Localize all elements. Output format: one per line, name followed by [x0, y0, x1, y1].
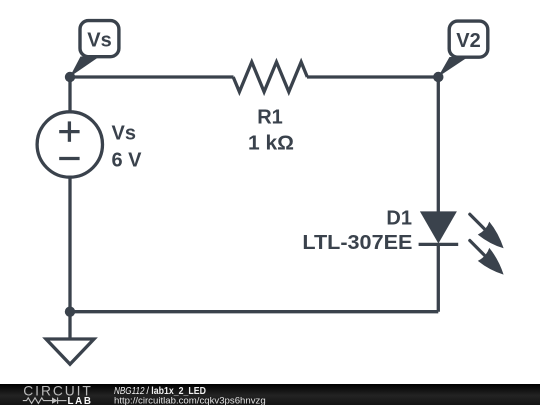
- footer bar: [0, 384, 540, 405]
- wire bottom: bottom-right corner to ground junction: [70, 310, 438, 313]
- resistor R1 (zigzag): [233, 62, 307, 92]
- LED light arrow 1: [470, 214, 504, 248]
- svg-text:V2: V2: [456, 30, 480, 52]
- wire top: node Vs to resistor R1 left lead: [70, 75, 234, 78]
- node Vs (junction dot): [65, 72, 75, 82]
- svg-text:LTL-307EE: LTL-307EE: [302, 232, 412, 254]
- svg-text:R1: R1: [257, 107, 283, 129]
- value label D1 / LTL-307EE of LED: [302, 207, 412, 254]
- svg-text:D1: D1: [386, 207, 412, 229]
- node label V2 (callout box with pointer): [438, 21, 488, 77]
- LED D1 (diode triangle and cathode bar): [419, 211, 459, 244]
- node: ground junction dot: [65, 307, 75, 317]
- ground (stem and triangle): [46, 312, 94, 365]
- svg-text:6 V: 6 V: [112, 149, 143, 171]
- footer text: NBG112 / lab1x_2_LED: [114, 386, 206, 397]
- svg-text:LAB: LAB: [68, 396, 92, 405]
- node label Vs (callout box with pointer): [70, 21, 119, 77]
- voltage source Vs (circle with + and - marks): [37, 112, 102, 177]
- value label Vs / 6 V of voltage source: [112, 123, 143, 172]
- svg-text:Vs: Vs: [112, 123, 136, 145]
- node V2 (junction dot): [433, 72, 443, 82]
- wire: node V2 down to LED anode: [437, 77, 440, 212]
- svg-text:1 kΩ: 1 kΩ: [248, 133, 294, 155]
- LED light arrow 2: [470, 241, 504, 275]
- value label R1 / 1 kOhm of resistor: [248, 107, 294, 155]
- wire top: resistor R1 right lead to node V2: [307, 75, 438, 78]
- svg-text:http://circuitlab.com/cqkv3ps6: http://circuitlab.com/cqkv3ps6hnvzg: [114, 395, 266, 405]
- svg-text:Vs: Vs: [87, 30, 111, 52]
- wire: voltage source bottom terminal down to ground junction: [68, 176, 71, 312]
- wire: node Vs down to voltage source top terminal: [68, 77, 71, 113]
- CircuitLab logo: resistor-diode strikethrough: [23, 397, 67, 403]
- wire: LED cathode down to bottom-right corner: [437, 244, 440, 311]
